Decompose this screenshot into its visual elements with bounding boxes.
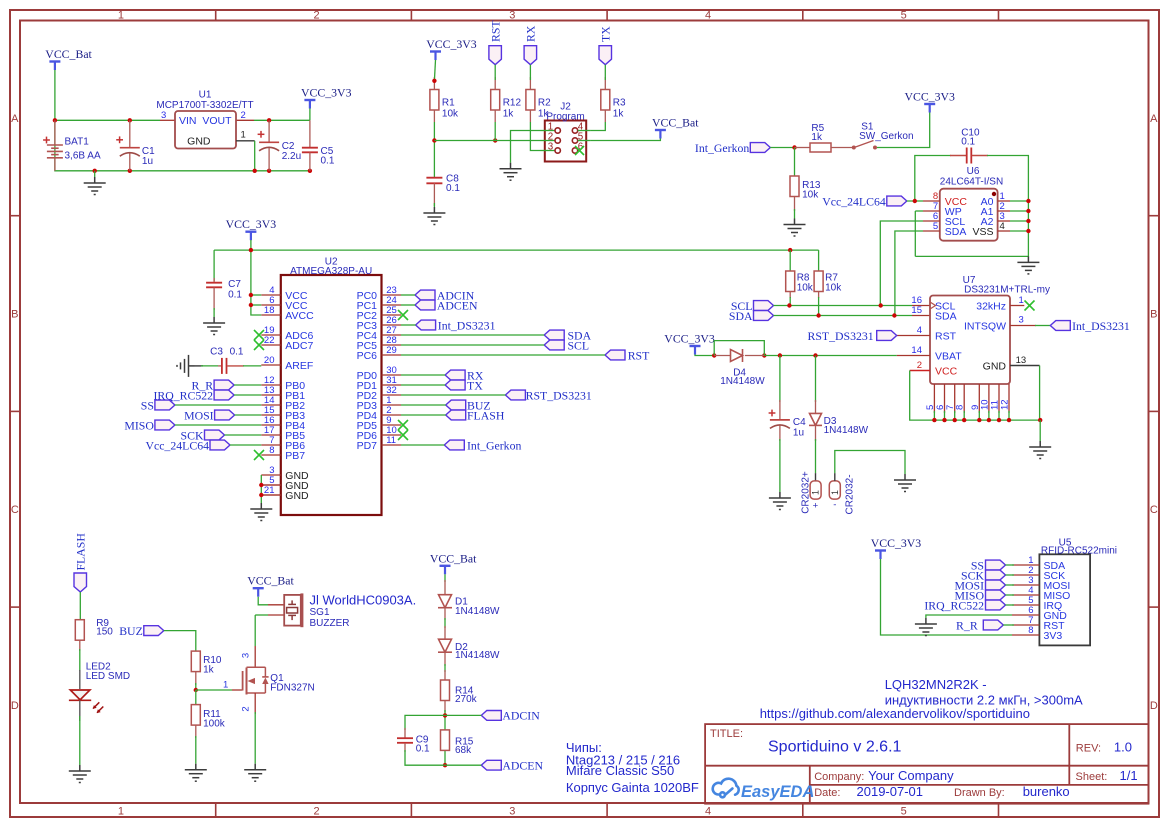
svg-text:A: A [1150, 113, 1158, 125]
svg-text:Int_DS3231: Int_DS3231 [1072, 319, 1130, 333]
svg-text:B: B [1150, 309, 1157, 321]
svg-text:Vcc_24LC64: Vcc_24LC64 [145, 438, 209, 452]
svg-text:VIN: VIN [179, 115, 197, 127]
svg-text:68k: 68k [455, 745, 472, 756]
svg-text:1k: 1k [203, 665, 215, 676]
svg-text:LED SMD: LED SMD [86, 671, 130, 682]
svg-text:4: 4 [1000, 221, 1005, 232]
svg-text:ADCEN: ADCEN [502, 759, 543, 773]
svg-text:ADCEN: ADCEN [437, 298, 478, 312]
svg-text:U6: U6 [967, 166, 980, 177]
svg-text:2019-07-01: 2019-07-01 [857, 784, 924, 799]
svg-text:VCC_Bat: VCC_Bat [430, 551, 477, 565]
svg-text:VCC: VCC [935, 365, 958, 377]
svg-text:1/1: 1/1 [1120, 768, 1138, 783]
svg-text:VCC_Bat: VCC_Bat [247, 574, 294, 588]
svg-text:1: 1 [118, 10, 124, 22]
svg-text:GND: GND [285, 490, 309, 502]
svg-text:R2: R2 [538, 98, 551, 109]
svg-text:CR2032+: CR2032+ [801, 471, 812, 514]
svg-text:RST: RST [489, 20, 503, 42]
svg-text:AREF: AREF [285, 360, 313, 372]
svg-text:SDA: SDA [729, 309, 753, 323]
svg-text:+: + [813, 501, 819, 512]
svg-text:10k: 10k [802, 190, 819, 201]
svg-text:1u: 1u [793, 427, 804, 438]
svg-text:0.1: 0.1 [230, 347, 244, 358]
svg-text:5: 5 [933, 221, 938, 232]
svg-text:TX: TX [467, 378, 483, 392]
svg-text:3,6B AA: 3,6B AA [65, 150, 101, 161]
svg-text:LQH32MN2R2K -: LQH32MN2R2K - [885, 677, 987, 692]
svg-text:VCC_3V3: VCC_3V3 [904, 90, 955, 104]
svg-text:12: 12 [1000, 399, 1011, 410]
svg-text:10k: 10k [797, 283, 814, 294]
svg-text:C3: C3 [210, 347, 223, 358]
svg-text:IRQ_RC522: IRQ_RC522 [924, 598, 984, 612]
svg-text:24LC64T-I/SN: 24LC64T-I/SN [940, 177, 1003, 188]
svg-text:150: 150 [96, 627, 113, 638]
svg-text:RST: RST [628, 348, 650, 362]
svg-text:B: B [11, 309, 18, 321]
svg-text:29: 29 [386, 345, 397, 356]
svg-text:R_R: R_R [956, 618, 978, 632]
svg-text:PB7: PB7 [285, 450, 305, 462]
svg-text:32kHz: 32kHz [976, 300, 1006, 312]
svg-text:R3: R3 [613, 98, 626, 109]
svg-text:D: D [11, 700, 19, 712]
svg-text:Date:: Date: [814, 787, 840, 799]
svg-text:GND: GND [983, 360, 1007, 372]
svg-text:3: 3 [241, 653, 252, 658]
svg-text:BUZ: BUZ [119, 624, 143, 638]
svg-text:0.1: 0.1 [228, 290, 242, 301]
svg-text:1k: 1k [503, 109, 515, 120]
svg-text:-: - [833, 500, 836, 511]
svg-text:0.1: 0.1 [961, 136, 975, 147]
svg-text:Jl WorldHC0903A.: Jl WorldHC0903A. [310, 593, 417, 608]
svg-text:Sportiduino v 2.6.1: Sportiduino v 2.6.1 [768, 739, 902, 756]
svg-text:18: 18 [264, 305, 275, 316]
svg-text:EasyEDA: EasyEDA [741, 783, 814, 801]
svg-text:INTSQW: INTSQW [964, 320, 1006, 332]
svg-text:0.1: 0.1 [446, 183, 460, 194]
svg-text:2.2u: 2.2u [282, 151, 301, 162]
svg-text:8: 8 [269, 445, 274, 456]
svg-text:1.0: 1.0 [1114, 740, 1132, 755]
svg-text:SW_Gerkon: SW_Gerkon [859, 131, 913, 142]
svg-text:DS3231M+TRL-my: DS3231M+TRL-my [964, 285, 1050, 296]
svg-text:RX: RX [524, 25, 538, 42]
svg-text:1N4148W: 1N4148W [455, 650, 500, 661]
svg-text:ATMEGA328P-AU: ATMEGA328P-AU [290, 266, 372, 277]
svg-text:2: 2 [314, 806, 320, 818]
svg-text:Company:: Company: [814, 771, 864, 783]
svg-text:1k: 1k [613, 109, 625, 120]
svg-text:0.1: 0.1 [321, 156, 335, 167]
svg-text:20: 20 [264, 355, 275, 366]
svg-text:ADCIN: ADCIN [502, 709, 540, 723]
svg-text:C: C [1150, 504, 1158, 516]
svg-text:VCC_3V3: VCC_3V3 [426, 37, 477, 51]
svg-text:270k: 270k [455, 694, 478, 705]
svg-text:Корпус Gainta 1020BF: Корпус Gainta 1020BF [566, 780, 699, 795]
svg-text:2: 2 [314, 10, 320, 22]
svg-text:MCP1700T-3302E/TT: MCP1700T-3302E/TT [156, 100, 253, 111]
svg-text:SDA: SDA [935, 310, 957, 322]
svg-text:FLASH: FLASH [467, 408, 505, 422]
svg-text:SG1: SG1 [310, 607, 330, 618]
svg-text:1: 1 [1019, 295, 1024, 306]
svg-text:burenko: burenko [1023, 784, 1070, 799]
svg-text:100k: 100k [203, 719, 226, 730]
svg-text:3V3: 3V3 [1044, 630, 1063, 642]
svg-text:Int_Gerkon: Int_Gerkon [695, 141, 749, 155]
svg-text:3: 3 [161, 110, 166, 121]
svg-text:VCC_3V3: VCC_3V3 [871, 536, 922, 550]
svg-text:4: 4 [705, 806, 711, 818]
svg-text:U1: U1 [199, 90, 212, 101]
svg-text:TITLE:: TITLE: [710, 728, 743, 740]
svg-text:15: 15 [911, 305, 922, 316]
svg-text:1N4148W: 1N4148W [720, 376, 765, 387]
svg-text:MISO: MISO [124, 418, 154, 432]
svg-text:ADC7: ADC7 [285, 340, 313, 352]
svg-text:1: 1 [118, 806, 124, 818]
svg-text:VCC_Bat: VCC_Bat [652, 116, 699, 130]
svg-text:5: 5 [901, 806, 907, 818]
svg-text:VCC_Bat: VCC_Bat [45, 47, 92, 61]
svg-text:2: 2 [917, 360, 922, 371]
svg-text:RST_DS3231: RST_DS3231 [526, 388, 592, 402]
svg-text:RFID-RC522mini: RFID-RC522mini [1041, 545, 1117, 556]
svg-text:3: 3 [509, 10, 515, 22]
svg-text:Mifare Classic S50: Mifare Classic S50 [566, 763, 674, 778]
svg-text:https://github.com/alexandervo: https://github.com/alexandervolikov/spor… [760, 706, 1030, 721]
svg-text:SDA: SDA [945, 226, 967, 238]
svg-text:VBAT: VBAT [935, 350, 962, 362]
svg-text:BAT1: BAT1 [65, 137, 90, 148]
svg-text:REV:: REV: [1076, 743, 1101, 755]
svg-text:VCC_3V3: VCC_3V3 [664, 332, 715, 346]
svg-text:11: 11 [386, 435, 396, 446]
svg-text:1: 1 [223, 680, 228, 691]
svg-text:3: 3 [509, 806, 515, 818]
svg-text:2: 2 [241, 706, 252, 711]
svg-text:Int_Gerkon: Int_Gerkon [467, 438, 521, 452]
svg-text:Program: Program [546, 111, 584, 122]
svg-text:Your Company: Your Company [868, 768, 954, 783]
svg-text:8: 8 [1028, 625, 1033, 636]
svg-text:14: 14 [911, 345, 922, 356]
svg-text:10k: 10k [825, 283, 842, 294]
svg-text:A: A [11, 113, 19, 125]
svg-text:8: 8 [955, 405, 966, 410]
svg-text:1u: 1u [142, 156, 153, 167]
svg-text:1k: 1k [811, 132, 823, 143]
svg-text:RST: RST [935, 330, 957, 342]
svg-text:VSS: VSS [972, 226, 993, 238]
svg-text:1N4148W: 1N4148W [455, 606, 500, 617]
svg-text:10k: 10k [442, 109, 459, 120]
svg-text:C: C [11, 504, 19, 516]
svg-text:VCC_3V3: VCC_3V3 [301, 86, 352, 100]
svg-text:C7: C7 [228, 279, 241, 290]
svg-text:13: 13 [1016, 355, 1027, 366]
svg-text:1: 1 [811, 490, 821, 495]
svg-text:Drawn By:: Drawn By: [954, 787, 1005, 799]
svg-text:4: 4 [917, 325, 922, 336]
svg-text:GND: GND [187, 135, 211, 147]
svg-text:5: 5 [901, 10, 907, 22]
svg-text:3: 3 [1019, 315, 1024, 326]
svg-text:1: 1 [241, 130, 246, 141]
svg-text:Sheet:: Sheet: [1076, 771, 1108, 783]
svg-text:0.1: 0.1 [416, 744, 430, 755]
svg-text:2: 2 [241, 110, 246, 121]
svg-text:AVCC: AVCC [285, 310, 314, 322]
svg-text:D: D [1150, 700, 1158, 712]
svg-text:FDN327N: FDN327N [270, 683, 314, 694]
svg-text:FLASH: FLASH [74, 533, 88, 571]
svg-text:SCL: SCL [568, 338, 590, 352]
svg-text:3: 3 [548, 142, 554, 153]
svg-text:RST_DS3231: RST_DS3231 [807, 329, 873, 343]
svg-text:1: 1 [830, 490, 840, 495]
svg-text:4: 4 [705, 10, 711, 22]
svg-text:1N4148W: 1N4148W [824, 425, 869, 436]
svg-text:PD7: PD7 [357, 440, 378, 452]
svg-text:VOUT: VOUT [202, 115, 232, 127]
svg-text:VCC_3V3: VCC_3V3 [226, 217, 277, 231]
svg-text:Vcc_24LC64: Vcc_24LC64 [822, 195, 886, 209]
svg-text:MOSI: MOSI [184, 408, 214, 422]
svg-text:CR2032-: CR2032- [845, 474, 856, 514]
svg-text:PC6: PC6 [357, 350, 378, 362]
svg-text:22: 22 [264, 335, 275, 346]
svg-text:R1: R1 [442, 98, 455, 109]
svg-text:SS: SS [141, 398, 154, 412]
svg-text:TX: TX [599, 26, 613, 42]
svg-text:Int_DS3231: Int_DS3231 [438, 318, 496, 332]
svg-text:R12: R12 [503, 98, 522, 109]
svg-text:BUZZER: BUZZER [310, 618, 350, 629]
